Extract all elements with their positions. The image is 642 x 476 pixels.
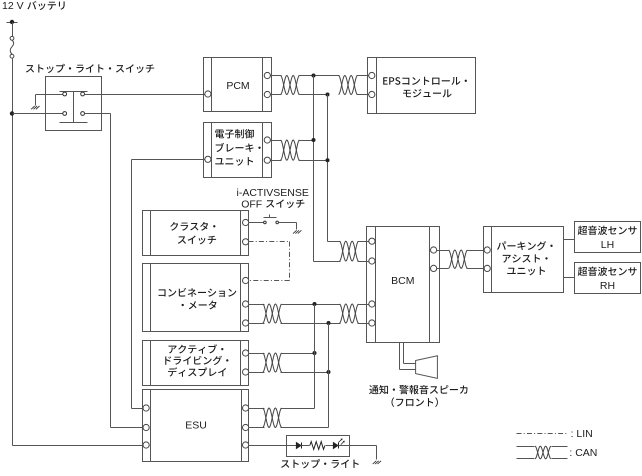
module BCM xyxy=(367,227,440,343)
node CAN meter L xyxy=(327,321,331,325)
twisted pair CAN EPS xyxy=(339,76,358,95)
wire xyxy=(287,445,297,447)
svg-text:BCM: BCM xyxy=(391,275,414,287)
switch i-ACTIVSENSE OFF xyxy=(264,221,267,224)
node CAN-H pcm xyxy=(312,74,316,78)
svg-text:: LIN: : LIN xyxy=(571,428,593,440)
node CAN-H brake xyxy=(312,138,316,142)
wire xyxy=(467,250,485,252)
switch box stop-light-switch xyxy=(46,77,102,131)
wire xyxy=(85,94,205,96)
BCM pin right 2 xyxy=(431,265,437,271)
BCM pin left 4 xyxy=(369,320,375,326)
parking pin 2 xyxy=(484,265,490,271)
sensor ultrasonic RH xyxy=(575,263,641,294)
wire xyxy=(36,94,63,96)
node CAN display L xyxy=(327,370,331,374)
BCM pin left 3 xyxy=(369,301,375,307)
ground xyxy=(293,230,297,233)
wire xyxy=(13,445,144,447)
ESU pin right 3 xyxy=(243,442,249,448)
sensor ultrasonic LH xyxy=(575,222,641,253)
twisted pair CAN parking xyxy=(449,250,468,268)
module cluster switch xyxy=(143,211,249,256)
svg-text:ESU: ESU xyxy=(185,419,207,431)
svg-text:i-ACTIVSENSE: i-ACTIVSENSE xyxy=(237,187,309,199)
ESU pin right 1 xyxy=(243,405,249,411)
BCM pin left 1 xyxy=(369,238,375,244)
twisted pair CAN brake xyxy=(281,140,300,160)
BCM pin left 2 xyxy=(369,258,375,264)
switch contacts xyxy=(60,91,88,93)
module EPS control module xyxy=(368,58,476,114)
PCM pin right 2 xyxy=(264,91,270,97)
svg-text:OFF: OFF xyxy=(241,198,262,210)
legend CAN xyxy=(517,446,535,448)
wire xyxy=(299,140,314,142)
meter pin 3 xyxy=(243,320,249,326)
wire xyxy=(271,140,282,142)
ESU pin left 2 xyxy=(143,424,149,430)
brake pin right 2 xyxy=(264,157,270,163)
label stop light switch xyxy=(26,64,154,73)
meter pin 1 xyxy=(243,277,249,283)
wire xyxy=(12,59,14,446)
twisted pair CAN BCM lower xyxy=(340,304,359,323)
PCM pin left xyxy=(205,91,211,97)
ESU pin left 3 xyxy=(143,442,149,448)
ground xyxy=(31,106,35,109)
wire xyxy=(249,222,264,224)
module ESU xyxy=(143,390,249,462)
wire CAN-L bus upper xyxy=(327,95,329,242)
node CAN meter H xyxy=(313,302,317,306)
svg-text:12 V: 12 V xyxy=(2,0,24,12)
twisted pair CAN meter xyxy=(263,304,282,323)
module parking assist unit xyxy=(484,227,564,293)
node CAN-L pcm xyxy=(326,93,330,97)
wire LIN cluster-meter xyxy=(249,241,290,243)
twisted pair CAN PCM xyxy=(281,76,300,95)
wire xyxy=(281,304,341,306)
ground xyxy=(373,461,377,464)
battery positive terminal node xyxy=(7,22,18,24)
svg-text:: CAN: : CAN xyxy=(569,447,597,459)
wire xyxy=(302,445,310,447)
svg-text:RH: RH xyxy=(600,280,615,292)
wire CAN-L bus lower xyxy=(328,324,330,428)
cluster pin 2 xyxy=(243,239,249,245)
svg-text:LH: LH xyxy=(601,239,614,251)
module electric brake unit xyxy=(204,123,272,178)
meter pin 2 xyxy=(243,301,249,307)
legend LIN xyxy=(517,433,568,435)
label speaker xyxy=(369,385,467,394)
speaker front warning xyxy=(416,356,438,379)
svg-text:PCM: PCM xyxy=(226,80,249,92)
wire xyxy=(85,113,111,115)
fuse xyxy=(10,36,14,40)
wire xyxy=(132,159,205,161)
wire xyxy=(12,23,14,37)
diode D1 xyxy=(296,442,301,449)
wire xyxy=(271,75,282,77)
wire xyxy=(249,445,287,447)
wire xyxy=(358,241,369,243)
parking pin 1 xyxy=(484,247,490,253)
wire xyxy=(249,353,265,355)
display pin 1 xyxy=(243,350,249,356)
display pin 2 xyxy=(243,369,249,375)
wire xyxy=(13,113,63,115)
node battery-switch junction xyxy=(10,111,14,115)
module combination meter xyxy=(143,264,249,332)
twisted pair CAN BCM upper xyxy=(340,241,359,261)
wire xyxy=(249,408,265,410)
twisted pair CAN display xyxy=(263,353,282,372)
wire speaker pair xyxy=(399,343,401,370)
label stop light xyxy=(281,459,359,468)
wire xyxy=(437,250,449,252)
wire xyxy=(358,304,369,306)
PCM pin right 1 xyxy=(264,72,270,78)
cluster pin 1 xyxy=(243,219,249,225)
EPS pin 2 xyxy=(369,91,375,97)
wire xyxy=(339,445,350,447)
wire xyxy=(299,75,340,77)
wire CAN-H bus lower xyxy=(314,305,316,409)
module PCM xyxy=(204,58,272,112)
resistor R1 xyxy=(310,442,325,450)
twisted pair CAN ESU xyxy=(263,408,282,428)
wire xyxy=(350,445,377,447)
wire xyxy=(281,353,315,355)
brake pin right 1 xyxy=(264,137,270,143)
wire xyxy=(564,277,575,279)
wire xyxy=(249,304,265,306)
LED D2 xyxy=(333,442,338,449)
lamp stop light box xyxy=(287,436,350,457)
ESU pin right 2 xyxy=(243,424,249,430)
wire xyxy=(279,222,297,224)
wire xyxy=(357,75,369,77)
brake pin left xyxy=(205,156,211,162)
module active driving display xyxy=(143,341,249,386)
EPS pin 1 xyxy=(369,72,375,78)
BCM pin right 1 xyxy=(431,247,437,253)
wire xyxy=(326,445,334,447)
node CAN-L brake xyxy=(326,158,330,162)
ESU pin left 1 xyxy=(143,405,149,411)
wire CAN-H bus upper xyxy=(313,76,315,262)
node CAN display H xyxy=(313,351,317,355)
wire xyxy=(564,239,575,241)
